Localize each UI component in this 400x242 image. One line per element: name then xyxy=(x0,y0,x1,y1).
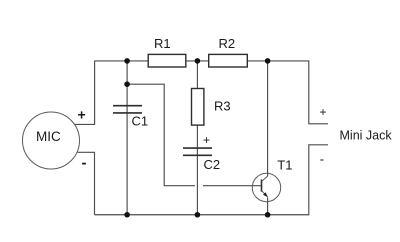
microphone MIC xyxy=(23,112,80,169)
svg-text:+: + xyxy=(203,133,210,147)
wire C1 branch xyxy=(126,61,128,215)
node dot top C1 xyxy=(124,58,130,64)
svg-text:C1: C1 xyxy=(132,114,149,129)
wire jack plus xyxy=(309,61,328,124)
svg-text:R2: R2 xyxy=(219,36,236,51)
svg-text:MIC: MIC xyxy=(36,129,61,144)
capacitor C1 xyxy=(113,105,142,107)
svg-text:T1: T1 xyxy=(277,158,292,173)
resistor R1 xyxy=(148,54,186,67)
svg-text:C2: C2 xyxy=(204,157,221,172)
node dot bottom C1 xyxy=(124,212,130,218)
wire bottom rail xyxy=(95,214,310,216)
resistor R2 xyxy=(209,54,248,67)
wire R3 C2 branch xyxy=(196,61,198,215)
svg-text:-: - xyxy=(82,155,87,172)
resistor R3 xyxy=(192,89,204,126)
svg-text:Mini Jack: Mini Jack xyxy=(340,129,393,143)
wire top rail xyxy=(94,60,309,62)
svg-text:-: - xyxy=(320,152,324,167)
node dot bottom C2 xyxy=(195,212,201,218)
wire base path left xyxy=(127,84,195,186)
node dot top R3 xyxy=(195,58,201,64)
wire jack minus xyxy=(309,145,328,215)
wire MIC minus vertical xyxy=(78,152,95,214)
svg-text:+: + xyxy=(78,107,86,123)
capacitor C2 xyxy=(183,147,212,149)
wire MIC plus vertical xyxy=(74,61,95,125)
wire collector xyxy=(267,61,269,176)
svg-text:R3: R3 xyxy=(214,99,231,114)
svg-text:+: + xyxy=(320,105,327,119)
svg-text:R1: R1 xyxy=(154,36,171,51)
node dot bottom emitter xyxy=(265,212,271,218)
transistor T1 xyxy=(252,173,280,201)
node dot C1 base xyxy=(124,81,130,87)
wire emitter xyxy=(267,197,269,214)
wire base path right xyxy=(203,185,262,187)
node dot top collector xyxy=(265,58,271,64)
